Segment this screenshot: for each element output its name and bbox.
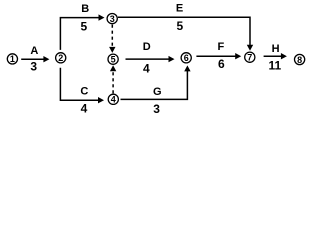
svg-text:2: 2 — [58, 53, 63, 63]
svg-text:6: 6 — [184, 53, 189, 63]
svg-text:11: 11 — [268, 59, 281, 73]
svg-text:D: D — [143, 41, 151, 53]
svg-text:3: 3 — [30, 59, 37, 73]
svg-text:7: 7 — [247, 53, 252, 63]
svg-text:4: 4 — [143, 61, 150, 75]
svg-text:3: 3 — [110, 14, 115, 24]
svg-text:F: F — [218, 41, 225, 53]
svg-text:6: 6 — [218, 57, 225, 71]
svg-text:H: H — [272, 43, 280, 55]
svg-text:C: C — [80, 86, 88, 98]
svg-text:8: 8 — [297, 55, 302, 65]
svg-text:1: 1 — [10, 54, 15, 64]
svg-text:5: 5 — [81, 20, 88, 34]
svg-text:E: E — [176, 3, 183, 15]
svg-text:3: 3 — [153, 102, 160, 116]
svg-text:4: 4 — [111, 95, 116, 105]
svg-text:B: B — [81, 3, 89, 15]
svg-text:5: 5 — [111, 55, 116, 65]
svg-text:4: 4 — [81, 102, 88, 116]
svg-text:A: A — [30, 45, 38, 57]
svg-text:5: 5 — [176, 19, 183, 33]
svg-text:G: G — [153, 86, 162, 98]
